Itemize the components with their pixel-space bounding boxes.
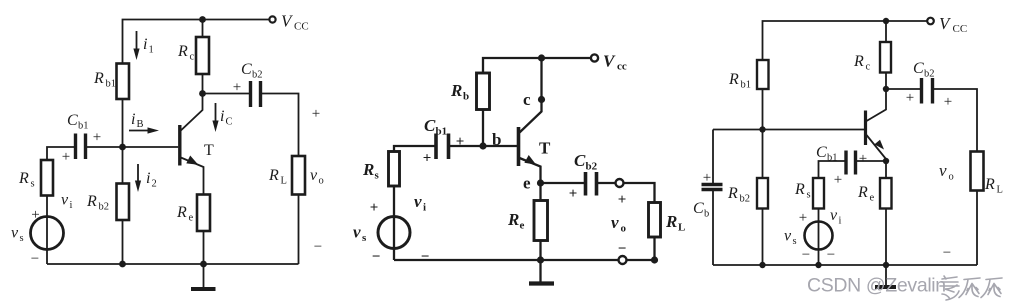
watermark chinese characters	[940, 276, 1002, 300]
svg-text:V: V	[603, 52, 616, 71]
svg-text:b: b	[463, 91, 469, 103]
svg-text:L: L	[281, 176, 287, 187]
svg-text:s: s	[31, 179, 35, 190]
resistor Rs middle	[389, 152, 400, 187]
svg-text:i: i	[220, 108, 224, 125]
svg-text:s: s	[362, 232, 367, 244]
label Rb2 right	[727, 185, 750, 205]
resistor Rc right	[880, 42, 891, 73]
node c middle	[538, 96, 545, 103]
resistor RL right	[971, 152, 984, 191]
svg-text:e: e	[189, 213, 194, 224]
wire Cb1 to Rs right	[819, 161, 847, 178]
svg-text:−: −	[421, 249, 430, 265]
terminal vo minus middle	[619, 256, 627, 264]
wire Cb to bottom rail right	[712, 190, 714, 266]
svg-text:R: R	[450, 81, 462, 100]
svg-text:+: +	[456, 134, 465, 150]
label vs left	[11, 225, 24, 245]
arrow current iB	[129, 127, 159, 133]
svg-text:T: T	[204, 142, 214, 159]
resistor Rb1 right	[757, 60, 769, 89]
resistor Rs right	[813, 178, 824, 209]
transistor T left emitter lead with arrow	[181, 156, 204, 195]
svg-text:R: R	[93, 70, 104, 87]
svg-text:C: C	[241, 61, 252, 78]
svg-text:R: R	[176, 204, 187, 221]
svg-text:b1: b1	[436, 126, 448, 138]
svg-text:R: R	[665, 212, 677, 231]
svg-text:v: v	[784, 228, 792, 245]
wire RL to bottom rail	[298, 195, 300, 265]
svg-text:L: L	[678, 222, 685, 234]
wire collector column middle	[540, 58, 542, 100]
svg-text:s: s	[20, 233, 24, 244]
svg-text:R: R	[268, 167, 279, 184]
wire base	[123, 146, 179, 148]
svg-text:C: C	[67, 112, 78, 129]
svg-text:c: c	[190, 52, 195, 63]
svg-text:b1: b1	[741, 80, 752, 91]
label Rc left	[177, 43, 195, 63]
wire Cb2 to output terminal middle	[597, 182, 616, 184]
svg-text:c: c	[523, 90, 531, 109]
svg-text:R: R	[728, 71, 739, 88]
svg-text:+: +	[93, 130, 101, 146]
svg-text:B: B	[137, 119, 144, 130]
label RL left	[268, 167, 287, 187]
wire emitter to Cb2 middle	[541, 182, 586, 184]
wire base rail right	[713, 129, 864, 131]
wire top rail middle	[483, 58, 591, 73]
svg-text:−: −	[618, 241, 627, 257]
wire bottom rail right	[713, 264, 977, 266]
svg-text:e: e	[870, 193, 875, 204]
svg-text:v: v	[414, 192, 422, 211]
node top rail junction	[199, 16, 206, 23]
svg-text:b1: b1	[106, 79, 117, 90]
capacitor Cb2 left	[251, 81, 261, 107]
svg-text:R: R	[507, 210, 519, 229]
svg-text:v: v	[310, 167, 318, 184]
svg-text:L: L	[997, 185, 1003, 196]
watermark CSDN	[807, 275, 946, 297]
RIGHT CIRCUIT	[693, 14, 1003, 287]
wire top rail left	[123, 20, 269, 64]
node bottom rail vs right	[815, 262, 821, 268]
svg-text:+: +	[703, 170, 711, 186]
wire Re to bottom rail	[203, 231, 205, 264]
svg-text:v: v	[353, 223, 361, 242]
svg-text:+: +	[799, 210, 807, 226]
wire bottom rail middle	[394, 259, 655, 261]
wire Rc to collector node	[202, 74, 204, 94]
resistor RL left	[292, 156, 305, 195]
wire Rb2 to ground rail	[122, 220, 124, 264]
label vo middle	[611, 213, 627, 235]
wire Rs to vs and through source middle	[393, 186, 395, 260]
svg-text:C: C	[574, 151, 586, 170]
transistor T right emitter lead with arrow	[867, 135, 887, 161]
wire top rail right	[763, 21, 927, 60]
source vs middle	[378, 217, 410, 249]
svg-text:e: e	[520, 220, 525, 232]
label Rs middle	[362, 160, 380, 182]
wire Re to bottom rail middle	[539, 241, 541, 261]
svg-text:s: s	[807, 190, 811, 201]
label RL middle	[665, 212, 685, 234]
capacitor Cb2 right	[922, 78, 933, 104]
svg-text:b2: b2	[740, 194, 751, 205]
wire Cb1 to base node	[86, 146, 123, 148]
wire Cb1 to emitter right	[856, 160, 887, 162]
svg-text:T: T	[539, 139, 551, 158]
svg-text:i: i	[423, 202, 426, 214]
wire terminal to RL middle	[624, 183, 655, 203]
label Cb1 left	[67, 112, 89, 132]
transistor T right collector lead	[867, 89, 887, 121]
capacitor Cb1 right	[846, 151, 856, 175]
svg-text:R: R	[362, 160, 374, 179]
capacitor Cb2 middle	[586, 172, 597, 196]
svg-text:2: 2	[152, 179, 157, 190]
arrow current i2	[135, 164, 141, 192]
svg-text:v: v	[61, 192, 69, 209]
wire Vcc to Rc	[202, 20, 204, 38]
svg-text:R: R	[853, 53, 864, 70]
capacitor Cb right	[702, 185, 723, 190]
label Rs right	[794, 181, 811, 201]
wire RL to bottom rail right	[976, 191, 978, 266]
svg-text:C: C	[816, 144, 827, 161]
wire Rb to base node middle	[482, 110, 484, 147]
svg-text:i: i	[70, 200, 73, 211]
wire base node to Rb2 right	[762, 130, 764, 179]
label vi middle	[414, 192, 426, 214]
svg-text:V: V	[281, 12, 294, 31]
svg-text:b: b	[704, 209, 709, 220]
svg-text:b2: b2	[586, 161, 598, 173]
label vo right	[939, 161, 954, 183]
svg-text:R: R	[727, 185, 738, 202]
resistor Rb2 left	[117, 184, 130, 221]
wire RL to bottom rail middle	[653, 237, 655, 260]
svg-text:i: i	[146, 170, 150, 187]
svg-text:b2: b2	[99, 202, 110, 213]
svg-text:R: R	[18, 170, 29, 187]
node bottom rail junction left	[119, 261, 126, 268]
wire collector node to Cb2	[203, 93, 251, 95]
svg-text:R: R	[857, 184, 868, 201]
resistor Rc left	[196, 37, 209, 74]
svg-text:R: R	[86, 193, 97, 210]
resistor Rs left	[41, 160, 53, 196]
svg-text:V: V	[939, 14, 952, 33]
node base junction middle	[479, 142, 486, 149]
node bottom rail Re right	[883, 262, 889, 268]
svg-text:v: v	[830, 207, 838, 224]
wire base rail to Cb right	[712, 130, 714, 185]
svg-text:b1: b1	[78, 121, 89, 132]
wire collector to Cb2 right	[886, 88, 922, 90]
terminal VCC middle	[591, 54, 598, 61]
svg-text:o: o	[949, 172, 954, 183]
wire bottom rail left circuit	[47, 263, 299, 265]
svg-text:C: C	[693, 200, 704, 217]
svg-text:CSDN @Zevalin: CSDN @Zevalin	[807, 275, 946, 297]
svg-text:R: R	[794, 181, 805, 198]
label vs middle	[353, 223, 367, 245]
wire base middle	[449, 145, 518, 147]
wire Cb2 to RL right	[933, 89, 978, 152]
resistor Re right	[880, 178, 892, 209]
resistor Rb middle	[477, 73, 490, 110]
label vs right	[784, 228, 797, 248]
svg-text:i: i	[131, 111, 135, 128]
terminal vo plus middle	[616, 179, 624, 187]
label Cb2 left	[241, 61, 263, 81]
svg-text:+: +	[944, 94, 952, 110]
terminal VCC right	[927, 18, 934, 25]
wire Rb1 to base node	[122, 99, 124, 147]
source vs right	[805, 222, 833, 250]
svg-text:+: +	[618, 192, 627, 208]
svg-text:−: −	[31, 251, 39, 267]
transistor T middle emitter lead with arrow	[520, 155, 541, 183]
label Rb1 left	[93, 70, 116, 90]
transistor T middle collector lead	[520, 100, 542, 133]
label iB	[131, 111, 144, 130]
svg-text:s: s	[375, 170, 380, 182]
arrow current iC	[212, 103, 218, 132]
svg-text:v: v	[939, 161, 947, 180]
label i1	[143, 36, 154, 56]
label Rb1 right	[728, 71, 751, 91]
wire emitter to Re right	[885, 161, 887, 178]
svg-text:R: R	[177, 43, 188, 60]
svg-text:e: e	[523, 174, 531, 193]
wire Rs to vs through source right	[818, 209, 820, 266]
label Cb2 middle	[574, 151, 598, 173]
wire emitter to Re middle	[539, 183, 541, 201]
transistor T right base bar	[864, 111, 867, 146]
wire Vcc to Rc right	[885, 21, 887, 42]
wire Rb1 to base rail right	[762, 89, 764, 130]
svg-text:c: c	[866, 62, 871, 73]
ground right	[875, 265, 896, 287]
label Cb1 right	[816, 144, 838, 164]
resistor Re left	[197, 195, 210, 232]
MIDDLE CIRCUIT	[353, 52, 685, 284]
label Rb2 left	[86, 193, 109, 213]
node collector junction right	[883, 86, 889, 92]
node bottom rail junction ground	[200, 261, 207, 268]
svg-text:CC: CC	[294, 21, 309, 33]
wire source to Cb1 middle	[394, 146, 436, 152]
svg-text:+: +	[233, 80, 241, 96]
wire Re to bottom rail right	[885, 209, 887, 266]
node emitter junction right	[883, 158, 889, 164]
ground left	[191, 264, 216, 289]
svg-text:−: −	[372, 249, 381, 265]
svg-text:C: C	[226, 117, 233, 128]
svg-text:b2: b2	[924, 69, 935, 80]
label Cb right	[693, 200, 709, 220]
resistor Rb1 left	[117, 64, 130, 100]
label VCC left	[281, 12, 309, 33]
node collector junction C	[199, 90, 206, 97]
svg-text:+: +	[906, 90, 914, 106]
wire Rb2 to bottom rail right	[762, 209, 764, 266]
svg-text:+: +	[370, 200, 379, 216]
svg-text:+: +	[423, 151, 432, 167]
svg-text:i: i	[143, 36, 147, 53]
label iC	[220, 108, 233, 128]
source vs left	[31, 217, 64, 250]
node top rail junction middle	[538, 54, 545, 61]
resistor RL middle	[649, 203, 661, 238]
label RL right	[984, 176, 1003, 196]
svg-text:+: +	[62, 149, 70, 165]
node bottom rail junction middle	[537, 256, 544, 263]
resistor Rb2 right	[757, 178, 768, 209]
svg-text:v: v	[11, 225, 19, 242]
svg-text:b2: b2	[252, 70, 263, 81]
node bottom rail RL middle	[651, 256, 658, 263]
svg-text:C: C	[424, 116, 436, 135]
label Cb1 middle	[424, 116, 447, 138]
svg-text:−: −	[943, 245, 951, 261]
node bottom rail Rb2 right	[759, 262, 765, 268]
node e middle	[537, 179, 544, 186]
node base junction B	[119, 144, 126, 151]
label VCC right	[939, 14, 967, 35]
svg-text:+: +	[859, 151, 867, 167]
svg-text:o: o	[621, 223, 627, 235]
svg-text:R: R	[984, 176, 995, 193]
transistor T left base bar	[178, 125, 181, 166]
wire Cb2 to RL top	[261, 94, 299, 157]
label Re left	[176, 204, 194, 224]
svg-text:i: i	[839, 216, 842, 227]
label Rs left	[18, 170, 35, 190]
label Re middle	[507, 210, 525, 232]
label VCC middle	[603, 52, 627, 73]
label vi left	[61, 192, 73, 212]
label i2	[146, 170, 157, 190]
resistor Re middle	[534, 201, 548, 241]
capacitor Cb1 middle	[436, 134, 449, 160]
svg-text:+: +	[834, 172, 842, 188]
label Re right	[857, 184, 875, 204]
svg-text:+: +	[569, 186, 578, 202]
svg-text:v: v	[611, 213, 619, 232]
svg-text:C: C	[913, 60, 924, 77]
wire Rc to collector node right	[885, 73, 887, 90]
ground middle	[529, 260, 554, 284]
arrow current i1	[133, 31, 139, 60]
label vi right	[830, 207, 842, 227]
label vo left	[310, 167, 324, 187]
wire Rs to vs and through source to rail	[46, 196, 48, 265]
svg-text:1: 1	[149, 45, 154, 56]
svg-text:+: +	[312, 106, 320, 122]
node top rail junction right	[883, 18, 889, 24]
svg-text:o: o	[319, 176, 324, 187]
wire base node to Rb2	[122, 147, 124, 184]
transistor T left collector lead	[181, 94, 203, 131]
svg-text:−: −	[827, 247, 835, 263]
label Rb middle	[450, 81, 469, 103]
terminal VCC left	[269, 16, 275, 22]
label Rc right	[853, 53, 871, 73]
svg-text:−: −	[802, 247, 810, 263]
svg-text:cc: cc	[617, 61, 627, 73]
node base junction right	[759, 126, 765, 132]
label Cb2 right	[913, 60, 935, 80]
wire Cb1 to Rs	[47, 147, 76, 160]
svg-text:−: −	[314, 239, 322, 255]
svg-text:s: s	[793, 236, 797, 247]
transistor T middle base bar	[517, 127, 521, 166]
svg-text:CC: CC	[953, 23, 968, 35]
capacitor Cb1 left	[76, 134, 86, 160]
